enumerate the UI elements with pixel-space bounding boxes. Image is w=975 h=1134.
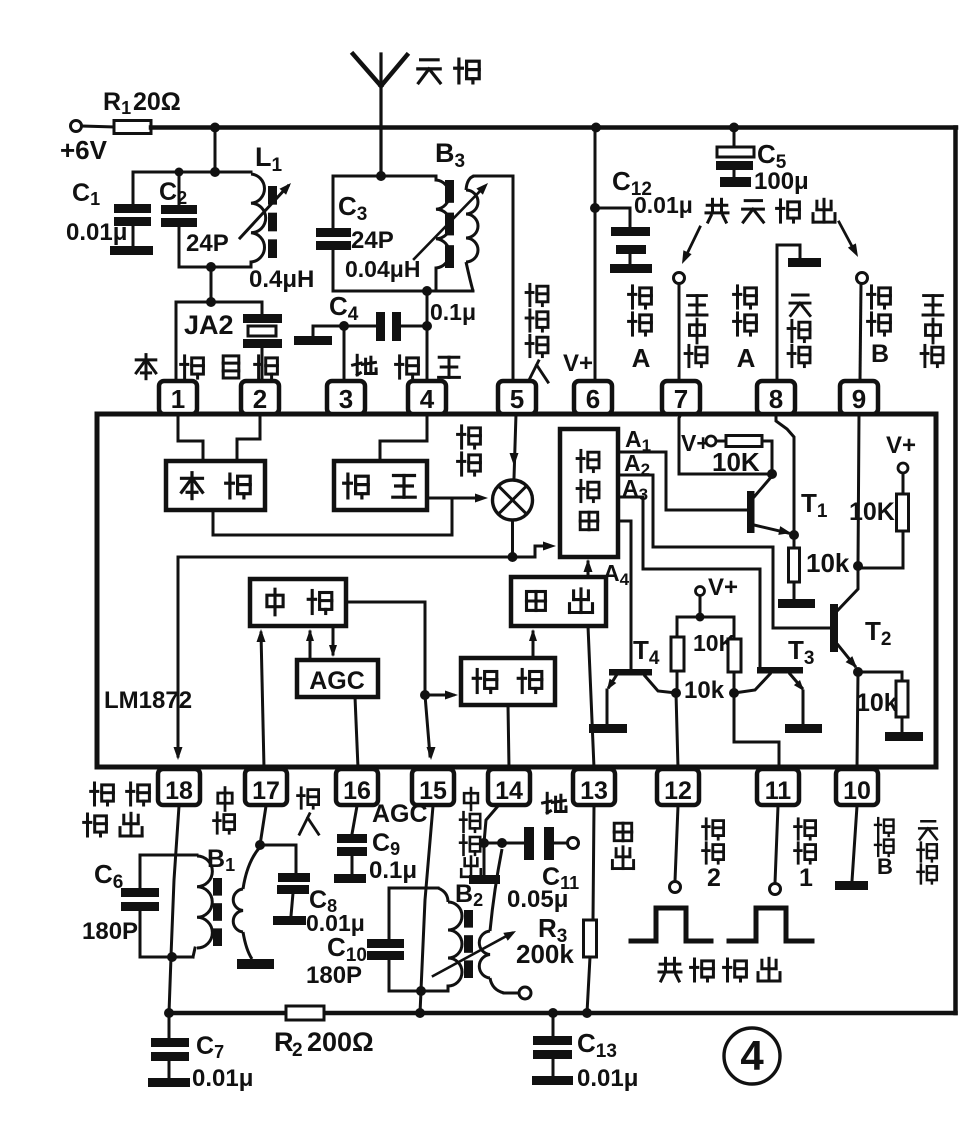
pin 5 (top)	[498, 381, 536, 414]
label mixer (hun pin) vertical	[458, 426, 481, 448]
svg-text:0.01μ: 0.01μ	[577, 1065, 638, 1092]
wire pin10 to ground	[852, 806, 857, 881]
core of B2	[464, 910, 473, 928]
transistor T4	[609, 669, 652, 676]
wire pin1 to local osc block	[178, 414, 203, 461]
label IF output (zhong fang shu chu) vertical	[464, 788, 478, 810]
wire terminal to pin 9	[860, 284, 861, 381]
core of B3	[445, 180, 454, 203]
pin 7 (top)	[662, 381, 700, 414]
wire pin9 down to T2 collector	[858, 414, 859, 566]
wire pin11 to channel1 terminal	[775, 806, 778, 883]
svg-text:2: 2	[253, 384, 267, 414]
capacitor C10 180P in tank	[367, 939, 404, 948]
transformer B2 tank	[389, 887, 438, 890]
node tank bottom junction	[206, 262, 216, 272]
pin 17 (bottom)	[245, 769, 287, 805]
pin 1 (top)	[159, 381, 197, 414]
label channel B vertical bottom	[875, 818, 894, 836]
wire pin12 to channel2 terminal	[675, 806, 678, 881]
svg-text:A3: A3	[622, 475, 648, 504]
ground bar below T2 resistor	[885, 732, 923, 741]
wire T3 collector junction to pin 11	[734, 693, 779, 768]
node T1 emitter junction	[789, 530, 799, 540]
capacitor C13 0.01u	[548, 1008, 558, 1018]
transistor T3	[757, 667, 803, 674]
node V+ branch junction	[696, 613, 705, 622]
svg-text:10k: 10k	[806, 548, 850, 578]
label bias (pian ya)	[396, 356, 419, 378]
svg-text:12: 12	[664, 777, 692, 805]
svg-text:200k: 200k	[516, 939, 574, 969]
wire pin18 down through B1 tank	[171, 806, 179, 956]
svg-text:4: 4	[420, 384, 435, 414]
node T2 emitter junction	[853, 667, 863, 677]
wire mixer output down	[511, 520, 514, 557]
node mixer output junction	[508, 552, 518, 562]
svg-text:A: A	[737, 343, 756, 373]
wire junction to pin 15 with arrow	[425, 695, 430, 756]
capacitor C6 180P in tank	[121, 888, 159, 897]
wire sync block to pin 13	[588, 626, 594, 768]
capacitor C1 0.01u	[132, 172, 135, 204]
capacitor C3 24P in tank left branch	[332, 176, 335, 228]
resistor R2 200ohm	[286, 1006, 324, 1020]
node channel B collector terminal	[857, 273, 868, 284]
svg-text:B1: B1	[207, 845, 235, 875]
node B2 secondary output terminal	[504, 992, 518, 995]
svg-text:B3: B3	[435, 138, 465, 172]
svg-text:1: 1	[171, 384, 185, 414]
antenna symbol	[379, 54, 382, 176]
label collector vertical	[687, 296, 707, 315]
wire tank to crystal node	[210, 267, 213, 302]
ground bar pin14	[483, 843, 486, 875]
svg-text:200Ω: 200Ω	[307, 1027, 374, 1057]
svg-text:0.01μ: 0.01μ	[634, 192, 693, 218]
figure number 4 circled	[724, 1028, 780, 1084]
waveform pulse 2	[729, 908, 812, 941]
svg-text:C4: C4	[329, 291, 359, 325]
svg-text:T1: T1	[801, 488, 828, 522]
label mixer input (hun pin shu ru) vertical	[526, 284, 548, 305]
node IF output junction	[420, 690, 430, 700]
svg-text:0.01μ: 0.01μ	[192, 1065, 253, 1092]
wire pin15 down through B2 tank	[421, 806, 433, 990]
pin 2 (top)	[241, 381, 279, 414]
wire junction down to tank top	[214, 128, 217, 173]
svg-text:AGC: AGC	[309, 667, 365, 695]
wire terminal to pin 7	[678, 284, 681, 381]
node T4 collector junction	[671, 688, 681, 698]
arrow detector to sync	[532, 632, 535, 658]
inductor B3 secondary	[466, 190, 478, 262]
node T2 collector junction	[853, 561, 863, 571]
svg-text:V+: V+	[886, 432, 916, 459]
svg-text:180P: 180P	[306, 962, 362, 989]
label channel B vertical	[868, 286, 891, 308]
label input (shu ru) vertical	[298, 788, 319, 808]
svg-text:17: 17	[252, 777, 280, 805]
pin 9 (top)	[840, 381, 878, 414]
node ground rail junction C7	[164, 1008, 174, 1018]
svg-text:9: 9	[852, 384, 866, 414]
svg-text:0.4μH: 0.4μH	[249, 266, 314, 293]
svg-text:AGC: AGC	[372, 800, 428, 828]
mixer multiplier symbol	[493, 480, 533, 520]
node C4 right junction	[422, 321, 432, 331]
arrow of B2 adjustment	[433, 933, 512, 976]
resistor 10K right (T3 collector)	[700, 617, 734, 639]
wire pin2 to local osc block	[237, 414, 260, 461]
wire mixer output to decoder with arrow	[535, 546, 548, 557]
svg-text:C10: C10	[327, 932, 367, 966]
wire left branch to pin 1	[175, 302, 178, 381]
crystal JA2	[261, 302, 264, 314]
svg-text:C7: C7	[196, 1032, 224, 1062]
svg-text:8: 8	[769, 384, 783, 414]
pin 6 (top)	[574, 381, 612, 414]
inductor B1 secondary	[233, 889, 243, 932]
node ground rail junction R3	[582, 1008, 592, 1018]
pin 18 (bottom)	[158, 769, 200, 805]
svg-text:13: 13	[580, 777, 608, 805]
capacitor C9 0.1u	[352, 806, 357, 834]
IC LM1872 body outline	[97, 414, 936, 767]
wire tank bottom	[179, 266, 251, 269]
svg-text:L1: L1	[255, 142, 283, 176]
label antenna (tian xian)	[418, 60, 440, 83]
node T1 collector junction	[767, 469, 777, 479]
node B3 bottom junction	[422, 286, 432, 296]
block AGC	[297, 660, 378, 697]
svg-text:4: 4	[740, 1032, 764, 1079]
wire AGC to pin 16	[355, 697, 358, 768]
arrow of L1 adjustment	[240, 186, 288, 238]
wire +6V to R1	[82, 126, 114, 127]
svg-text:C13: C13	[577, 1028, 617, 1062]
wire pin17 into IF amp with arrow	[261, 633, 264, 768]
core of B1	[213, 878, 222, 896]
svg-text:180P: 180P	[82, 918, 138, 945]
label emitter vertical bottom	[919, 821, 937, 839]
wire pin13 down	[593, 806, 594, 920]
label channel A 2 vertical	[734, 286, 757, 308]
node ground rail junction B2	[415, 1008, 425, 1018]
svg-text:10K: 10K	[849, 498, 895, 526]
label channel 2 vertical	[703, 819, 724, 839]
svg-text:100μ: 100μ	[754, 168, 809, 195]
ground bar pin10	[835, 881, 868, 890]
node crystal top junction	[206, 297, 216, 307]
block sync (tong bu)	[511, 577, 606, 626]
resistor R3 200k	[584, 920, 597, 957]
inductor B3 primary	[435, 176, 438, 180]
svg-text:0.05μ: 0.05μ	[507, 886, 568, 913]
pin 12 (bottom)	[657, 769, 699, 805]
svg-text:+6V: +6V	[60, 135, 108, 165]
wire pin8 to T1 emitter	[776, 414, 794, 535]
arrow AGC to IF amp	[309, 632, 312, 660]
inductor B2 primary	[438, 888, 448, 902]
svg-text:11: 11	[765, 777, 792, 805]
svg-text:24P: 24P	[351, 227, 394, 254]
svg-text:A: A	[632, 343, 651, 373]
block detector (jian bo)	[461, 658, 555, 705]
resistor R1 20ohm	[114, 121, 151, 134]
wire pin17 junction	[260, 806, 266, 845]
svg-text:C3: C3	[338, 191, 367, 225]
block bias (pian ya)	[334, 461, 427, 510]
outer border right side	[953, 128, 958, 1014]
capacitor C12 0.01u	[595, 208, 630, 227]
node B2 secondary top junction	[497, 838, 507, 848]
pin 4 (top)	[408, 381, 446, 414]
wire decoder output A2 to T2 base	[618, 475, 830, 628]
svg-text:14: 14	[495, 777, 523, 805]
svg-text:T2: T2	[865, 616, 891, 650]
arrow IF amp to AGC	[332, 626, 335, 654]
ground rail bottom	[168, 1011, 956, 1016]
capacitor C8 0.01u	[260, 845, 296, 873]
label ground (di)	[543, 793, 566, 813]
arrow junction into detector	[425, 694, 453, 697]
pin 10 (bottom)	[836, 769, 878, 805]
arrow of B3 adjustment	[414, 187, 484, 259]
wire local osc output to mixer	[213, 498, 452, 535]
node C12 branch junction	[590, 203, 600, 213]
pin 14 (bottom)	[488, 769, 530, 805]
wire tank bottom to ground rail	[169, 957, 171, 1013]
block decoder (yi ma qi)	[560, 429, 618, 557]
inductor L1 0.4uH	[215, 171, 251, 174]
svg-text:5: 5	[510, 384, 524, 414]
svg-text:C6: C6	[94, 859, 123, 893]
wire crystal branch horizontal	[176, 301, 262, 304]
label ground (di)	[353, 355, 377, 375]
label channel 1 vertical	[795, 819, 816, 839]
pin 15 (bottom)	[412, 769, 454, 805]
wire pin5 into mixer with arrow	[514, 414, 516, 478]
node T3 collector junction	[729, 688, 739, 698]
arrow to channel A terminal	[685, 227, 700, 258]
svg-text:T3: T3	[788, 635, 814, 669]
resistor 10k T1 emitter	[793, 535, 796, 548]
ground bar near C4	[294, 336, 332, 345]
svg-text:20Ω: 20Ω	[133, 88, 181, 116]
label local-osc crystal (ben zhen jing ti)	[136, 355, 156, 379]
svg-text:0.1μ: 0.1μ	[369, 857, 417, 884]
svg-text:24P: 24P	[186, 230, 229, 257]
svg-text:10: 10	[843, 777, 871, 805]
svg-text:JA2: JA2	[184, 310, 234, 340]
capacitor C11 0.05u	[524, 827, 534, 860]
inductor B1 primary	[197, 856, 212, 948]
transistor T1	[747, 491, 755, 533]
svg-text:B: B	[871, 340, 889, 368]
label emitter vertical	[790, 295, 810, 316]
node sync external terminal	[568, 838, 579, 849]
svg-text:3: 3	[339, 384, 353, 414]
label channel A vertical	[629, 286, 652, 308]
label IF (zhong pin) vertical	[218, 788, 232, 811]
arrow to channel B terminal	[839, 222, 854, 250]
resistor 10k T2 emitter	[858, 672, 902, 681]
capacitor C5 100u electrolytic	[729, 123, 739, 133]
wire V+ top rail	[151, 125, 956, 130]
wire mixer output to pin 18 long run	[178, 557, 535, 756]
svg-text:T4: T4	[633, 635, 660, 669]
wire pin3 drop	[343, 326, 346, 381]
wire IF amp output	[346, 602, 425, 695]
wire pin14 to junction	[484, 806, 498, 843]
wire pin4 drop	[426, 291, 429, 381]
transformer B1 tank	[140, 854, 197, 857]
resistor 10K left (T4 collector)	[677, 617, 700, 637]
block IF amp (zhong fang)	[250, 579, 346, 626]
block local oscillator (ben zhen)	[166, 461, 265, 510]
arrow sync to decoder	[587, 562, 590, 577]
ground bar T4 emitter	[589, 724, 627, 733]
svg-text:B: B	[877, 854, 893, 879]
node channel 2 terminal	[670, 882, 681, 893]
ground bar T3 emitter	[785, 724, 822, 733]
core of L1 (adjustable)	[268, 186, 277, 205]
wire resistor to junction	[762, 441, 772, 474]
svg-text:16: 16	[343, 777, 371, 805]
resistor 10K at T1 collector	[716, 440, 726, 443]
waveform pulse 1	[631, 908, 711, 941]
svg-text:2: 2	[707, 864, 721, 892]
pin 13 (bottom)	[573, 769, 615, 805]
svg-text:C2: C2	[159, 178, 187, 208]
label collector 2 vertical	[923, 296, 943, 315]
node C4 left junction	[339, 321, 349, 331]
pin 16 (bottom)	[336, 769, 378, 805]
node channel A collector terminal	[674, 273, 685, 284]
capacitor C7 0.01u	[168, 1013, 171, 1038]
wire T4 collector junction to pin 12	[676, 693, 678, 768]
wire pin14 junction to C11	[484, 842, 525, 845]
svg-text:B2: B2	[455, 880, 483, 910]
ground of pin 8 emitter	[776, 266, 779, 381]
wire decoder output A4 to T4 base	[618, 521, 631, 669]
wire bias output to mixer with arrow	[427, 497, 480, 500]
wire detector to pin 14	[508, 705, 509, 768]
label switch output (kai guan shu chu)	[706, 199, 728, 222]
svg-text:18: 18	[165, 777, 193, 805]
inductor B2 secondary	[479, 931, 490, 978]
capacitor C2 24P	[178, 172, 181, 205]
pin 8 (top)	[757, 381, 795, 414]
svg-text:C9: C9	[372, 829, 400, 859]
svg-text:R: R	[274, 1027, 294, 1057]
label proportional output (bi li shu chu)	[659, 958, 681, 981]
svg-text:10k: 10k	[856, 689, 898, 717]
wire tank top link (C1-C2-L1)	[133, 171, 251, 174]
svg-text:V+: V+	[708, 574, 738, 601]
wire B3 tank bottom	[333, 290, 473, 293]
svg-text:0.01μ: 0.01μ	[66, 219, 127, 246]
pin 11 (bottom)	[757, 769, 799, 805]
svg-text:0.04μH: 0.04μH	[345, 256, 420, 282]
svg-text:1: 1	[799, 864, 813, 892]
wire pin7 to T1 collector	[679, 414, 772, 474]
wire decoder output A1 to T1 base	[618, 452, 747, 510]
node channel 1 terminal	[770, 884, 781, 895]
svg-text:V+: V+	[563, 350, 593, 377]
node junction R1/L1 tank	[210, 123, 220, 133]
wire B3 secondary to pin 5	[474, 175, 513, 178]
ground bar below T1 resistor	[778, 599, 815, 608]
pin 3 (top)	[327, 381, 365, 414]
svg-text:10k: 10k	[684, 677, 725, 704]
label mixer output (hun pin shu chu)	[91, 783, 114, 805]
resistor 10K at T2 collector	[902, 473, 905, 494]
transformer B3 tank top	[333, 175, 436, 178]
svg-text:R1: R1	[103, 88, 131, 118]
node +6V supply terminal	[71, 121, 82, 132]
svg-text:2: 2	[292, 1040, 303, 1061]
svg-text:C1: C1	[72, 179, 100, 209]
wire T2 emitter to pin 10	[857, 672, 858, 768]
svg-text:0.1μ: 0.1μ	[430, 299, 476, 325]
node C2 top junction	[175, 168, 184, 177]
svg-text:6: 6	[586, 384, 600, 414]
wire decoder output A3 to T3 base	[618, 497, 760, 667]
wire pin6 V+ drop from rail	[591, 123, 601, 133]
ground bar B1 secondary	[237, 959, 274, 969]
node antenna to B3 top	[376, 171, 386, 181]
svg-text:7: 7	[674, 384, 688, 414]
wire pin4 to bias block	[380, 414, 427, 461]
transistor T2	[830, 604, 838, 652]
label sync (tong bu) vertical	[614, 823, 632, 841]
